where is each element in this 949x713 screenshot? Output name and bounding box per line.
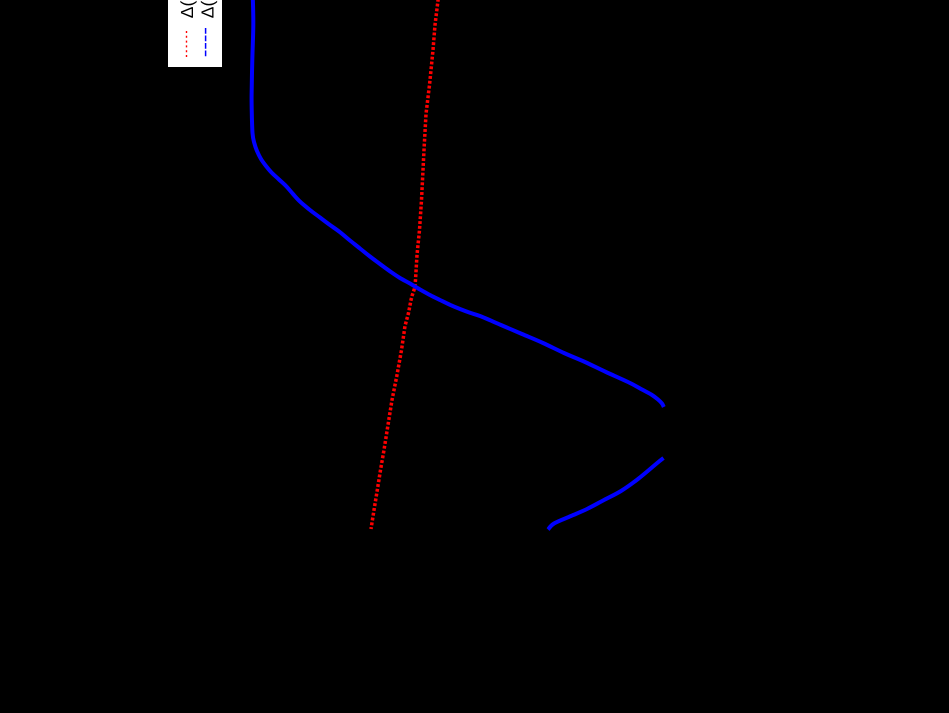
svg-text:Δ(: Δ( xyxy=(177,1,197,19)
svg-text:Δ(: Δ( xyxy=(197,1,217,19)
